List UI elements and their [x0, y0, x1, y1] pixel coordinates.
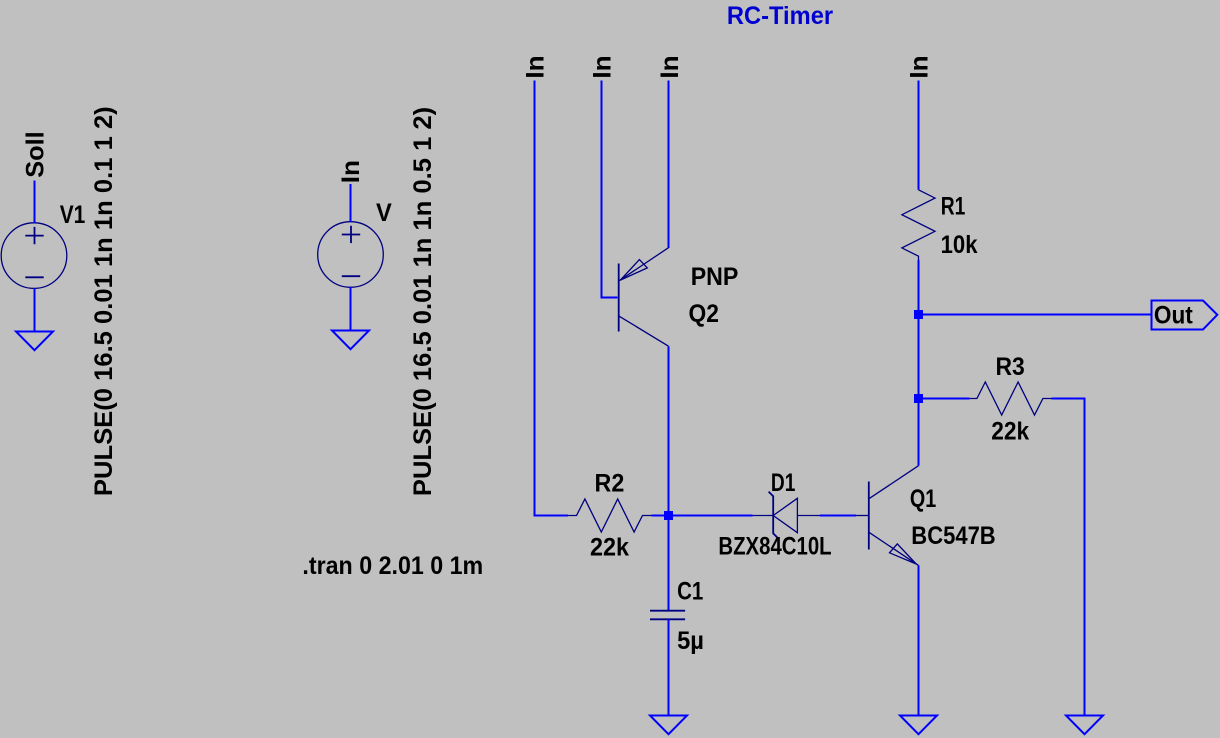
Q2 emitter line	[619, 248, 669, 281]
ground under R3 wire	[1066, 716, 1103, 735]
wire In4 down to R1	[918, 81, 920, 190]
wire In2 vertical to Q2 base	[602, 81, 618, 298]
D1 zener cathode bar with hooks	[769, 492, 778, 538]
zener diode D1 anode lead	[753, 515, 774, 517]
svg-text:Q1: Q1	[910, 485, 936, 513]
svg-text:R3: R3	[996, 353, 1025, 381]
svg-text:In: In	[906, 55, 934, 78]
svg-text:22k: 22k	[590, 534, 629, 562]
wire R3 right, corner down to ground	[1052, 399, 1085, 716]
wire node C to R3	[919, 398, 970, 400]
svg-text:V: V	[376, 199, 392, 227]
wire In3 vertical to Q2 emitter	[668, 81, 670, 249]
wire V top	[350, 184, 352, 222]
Q1 emitter arrow	[890, 544, 917, 564]
svg-text:V1: V1	[60, 201, 86, 229]
D1 triangle	[773, 498, 797, 532]
svg-text:BZX84C10L: BZX84C10L	[718, 533, 831, 561]
wire V1 bottom	[34, 288, 36, 332]
wire node C down to Q1 collector	[918, 399, 920, 466]
svg-text:BC547B: BC547B	[911, 522, 995, 550]
transistor Q1 (NPN) base lead	[856, 515, 869, 517]
ground under Q1 emitter	[900, 716, 937, 735]
Q2 emitter arrow	[620, 260, 647, 281]
wire V bottom	[350, 287, 352, 331]
wire node B to node C	[918, 315, 920, 399]
svg-text:Q2: Q2	[689, 300, 719, 328]
V1 plus sign	[25, 227, 43, 244]
node B junction square	[914, 310, 923, 319]
ground under V1	[16, 332, 53, 351]
svg-text:10k: 10k	[941, 231, 978, 259]
transistor Q2 (PNP) base bar	[618, 264, 620, 332]
voltage source V1 body	[1, 223, 67, 289]
capacitor C1 top plate	[650, 610, 685, 612]
svg-text:5µ: 5µ	[677, 627, 704, 655]
Q1 base bar	[868, 482, 870, 550]
resistor R2	[568, 499, 652, 532]
svg-text:PNP: PNP	[691, 263, 739, 291]
svg-text:22k: 22k	[991, 418, 1029, 446]
ground under V	[332, 331, 369, 350]
svg-text:In: In	[589, 55, 617, 78]
svg-text:.tran 0 2.01 0 1m: .tran 0 2.01 0 1m	[302, 552, 483, 580]
svg-text:Soll: Soll	[21, 131, 49, 178]
svg-text:C1: C1	[677, 578, 703, 606]
resistor R3	[970, 382, 1052, 415]
resistor R1	[902, 190, 935, 260]
wire node A down to C1	[668, 516, 670, 611]
Q2 collector line	[619, 316, 669, 346]
svg-text:RC-Timer: RC-Timer	[727, 2, 833, 30]
node A junction square	[664, 511, 673, 520]
wire node B to Out port	[919, 314, 1152, 316]
voltage source V body	[318, 222, 384, 288]
wire In1 vertical, corner to R2	[535, 81, 569, 516]
wire node A to D1	[669, 515, 753, 517]
wire V1 top	[34, 181, 36, 224]
V plus sign	[342, 226, 360, 243]
V minus sign	[342, 275, 360, 277]
C1 bottom plate	[650, 618, 685, 620]
svg-text:R1: R1	[941, 193, 966, 221]
Q1 collector line	[869, 466, 919, 499]
svg-text:In: In	[337, 160, 365, 183]
svg-text:In: In	[522, 55, 550, 78]
wire R1 to node B	[918, 260, 920, 315]
D1 cathode lead	[797, 515, 819, 517]
wire D1 to Q1 base	[820, 515, 856, 517]
wire R2 to node A	[652, 515, 669, 517]
wire Q2 collector down to node A	[668, 346, 670, 515]
svg-text:PULSE(0 16.5 0.01 1n 1n 0.1 1: PULSE(0 16.5 0.01 1n 1n 0.1 1 2)	[90, 106, 118, 496]
ground under C1	[650, 716, 687, 735]
svg-text:In: In	[656, 55, 684, 78]
svg-text:PULSE(0 16.5 0.01 1n 1n 0.5 1: PULSE(0 16.5 0.01 1n 1n 0.5 1 2)	[409, 107, 437, 496]
wire C1 to ground	[668, 619, 670, 715]
svg-text:Out: Out	[1154, 301, 1194, 329]
Q1 emitter line	[869, 532, 919, 565]
port flag Out	[1152, 301, 1218, 330]
wire Q1 emitter down to ground	[918, 565, 920, 715]
svg-text:D1: D1	[771, 469, 796, 497]
svg-text:R2: R2	[595, 470, 625, 498]
node C junction square	[914, 394, 923, 403]
V1 minus sign	[25, 276, 43, 278]
